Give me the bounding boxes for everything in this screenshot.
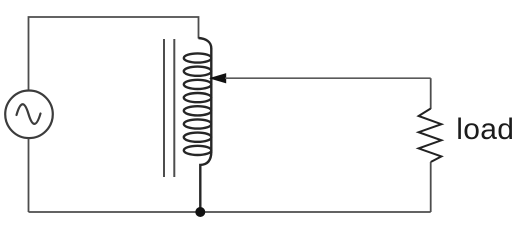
wire: resistor bottom to bottom rail (430, 162, 432, 212)
coil turn 1 (184, 53, 212, 62)
wire: bottom rail (29, 211, 431, 213)
transformer core line 2 (173, 39, 175, 177)
wire: tap line to load (225, 77, 431, 79)
ac source (5, 91, 53, 139)
sine symbol inside source (17, 104, 41, 124)
coil turn 3 (184, 80, 212, 89)
resistor (load) (419, 109, 442, 163)
coil entry curve (199, 38, 212, 49)
transformer core line 1 (163, 39, 165, 177)
coil exit curve and wire down to junction (200, 152, 211, 213)
junction dot (195, 207, 205, 217)
wire: down to load resistor (430, 78, 432, 109)
wiper tap arrowhead (209, 73, 226, 83)
coil turn 2 (184, 67, 212, 76)
wire: below source down to bottom rail (28, 139, 30, 212)
coil turn 5 (184, 106, 212, 115)
coil turn 8 (184, 146, 212, 155)
coil right-side link (210, 48, 212, 153)
wire: left loop (top-left corner, down-left side) (29, 17, 199, 91)
coil turn 7 (184, 133, 212, 142)
svg-text:load: load (456, 113, 514, 146)
coil turn 6 (184, 119, 212, 128)
coil turn 4 (184, 93, 212, 102)
